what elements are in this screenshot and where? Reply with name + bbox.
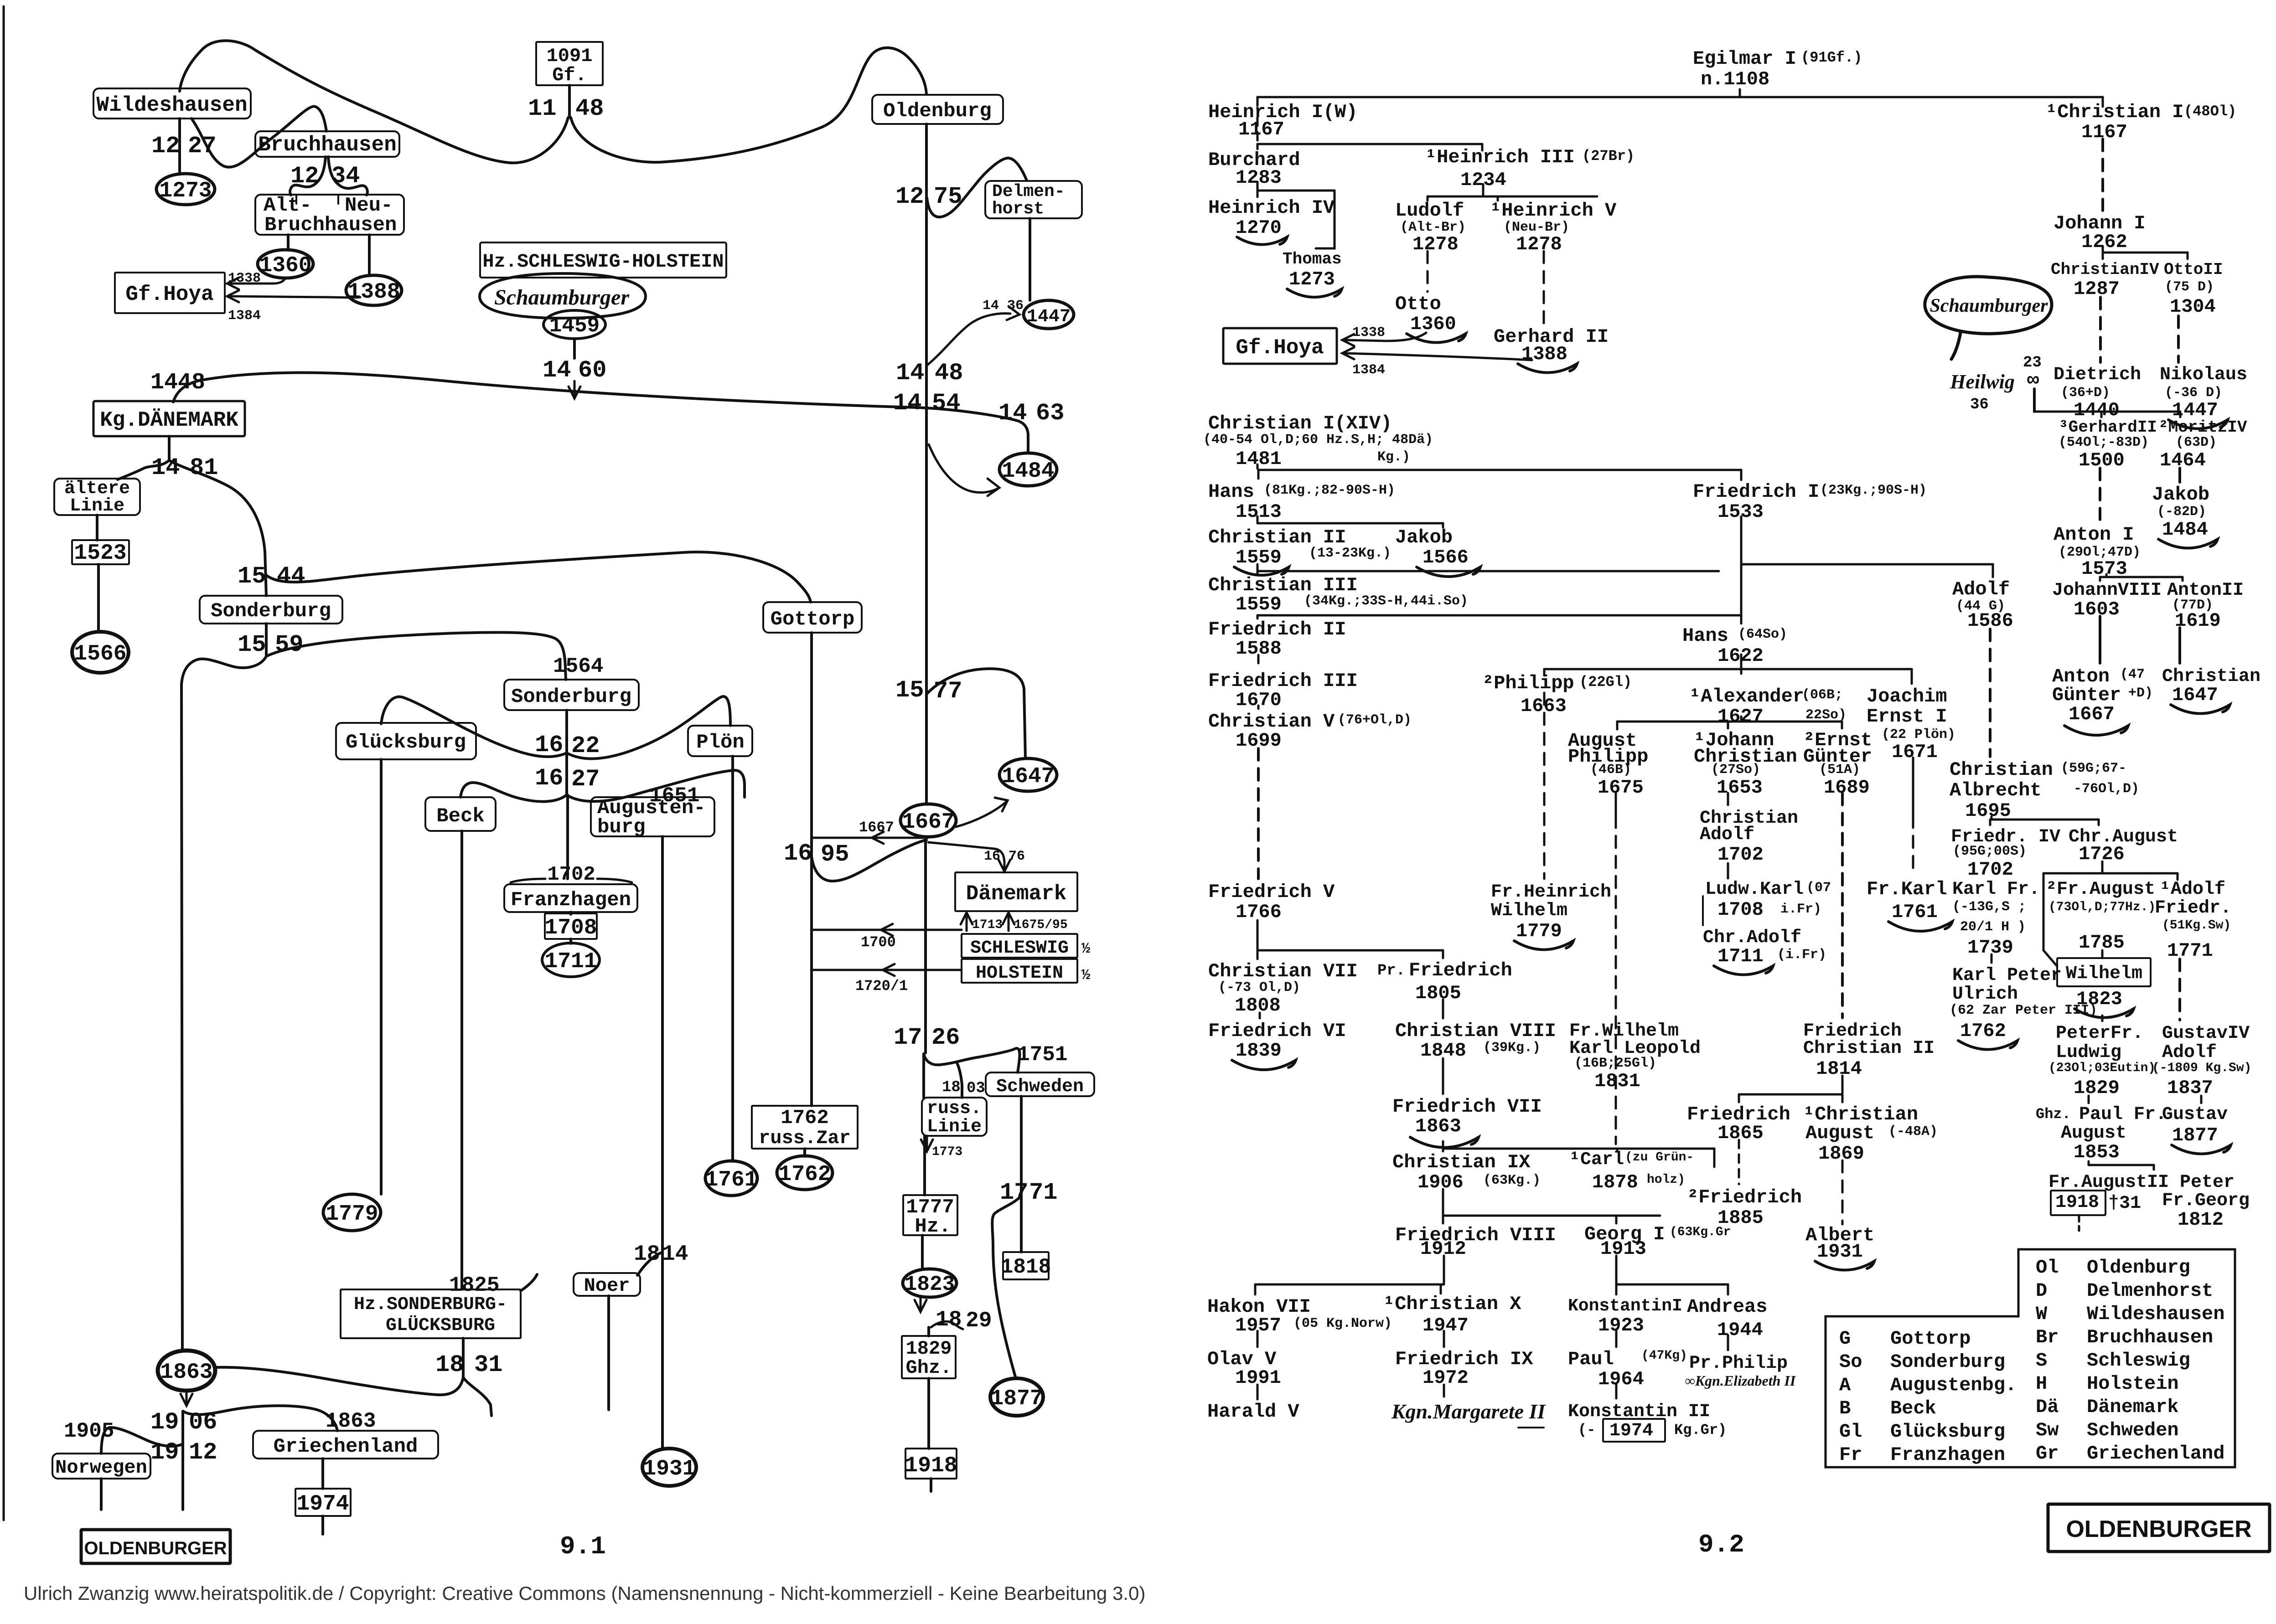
wire ErnstG dash — [1841, 793, 1844, 1018]
wire tick Moritz IV — [2179, 412, 2182, 417]
svg-text:Heinrich IV: Heinrich IV — [1208, 197, 1335, 219]
wire Gottorp down — [810, 633, 813, 1106]
box OLDENBURGER right — [2048, 1504, 2270, 1552]
swoosh 1484R — [2158, 539, 2218, 548]
arrow 1647 — [995, 798, 1008, 811]
arrow 1713 — [961, 913, 972, 924]
svg-text:Oldenburg: Oldenburg — [883, 100, 992, 123]
wire 1863 arrow — [186, 1391, 188, 1403]
wire Oldenburg main line lower — [924, 837, 927, 1053]
wire FVIII rail — [1255, 1284, 1444, 1286]
svg-text:1459: 1459 — [549, 314, 600, 338]
svg-text:1338: 1338 — [228, 271, 261, 286]
wire tick FriedrIV — [1989, 820, 1991, 825]
svg-text:1837: 1837 — [2167, 1077, 2213, 1099]
svg-text:1923: 1923 — [1598, 1315, 1644, 1336]
svg-text:Gf.: Gf. — [552, 64, 587, 86]
wire 1829 curl — [931, 1321, 963, 1329]
wire Neu to 1388 — [368, 235, 371, 275]
svg-text:Hans: Hans — [1208, 481, 1254, 503]
svg-text:Fr.Karl: Fr.Karl — [1867, 878, 1947, 900]
swoosh 1360R — [1407, 334, 1466, 343]
svg-text:1675: 1675 — [1598, 777, 1644, 799]
wire tick AdolfFr — [2177, 873, 2179, 880]
wire gen JohannI rail — [2103, 252, 2188, 254]
box Hz.SONDERBURG-GLUECKSBURG — [341, 1289, 521, 1338]
oval 1823 — [903, 1269, 957, 1297]
svg-text:†31: †31 — [2108, 1193, 2141, 1214]
svg-text:1878: 1878 — [1592, 1171, 1638, 1193]
wire 1559 left to main drop — [181, 656, 266, 1351]
svg-text:1619: 1619 — [2175, 610, 2221, 632]
svg-text:Glücksburg: Glücksburg — [1890, 1421, 2005, 1443]
svg-text:1863: 1863 — [1415, 1115, 1461, 1137]
svg-text:i.Fr): i.Fr) — [1780, 902, 1821, 917]
wire Paul stub — [1615, 1385, 1618, 1398]
wire 1695 branch — [812, 840, 926, 881]
page edge line left — [3, 6, 5, 1520]
svg-text:Schweden: Schweden — [996, 1077, 1084, 1097]
svg-text:Beck: Beck — [1890, 1397, 1936, 1419]
svg-text:Schaumburger: Schaumburger — [1929, 295, 2048, 316]
box Delmenhorst — [985, 181, 1082, 218]
box aeltere Linie — [54, 479, 140, 515]
svg-text:95: 95 — [821, 841, 849, 868]
svg-text:¹Heinrich V: ¹Heinrich V — [1490, 200, 1617, 222]
svg-text:Friedrich VIII: Friedrich VIII — [1395, 1224, 1556, 1246]
swoosh 1711b — [1714, 966, 1773, 975]
wire gen2 rail — [1257, 143, 1482, 145]
bubble Schaumburger left — [480, 273, 646, 318]
wire 1837 stub — [2200, 1096, 2203, 1103]
wire Augustenburg to 1931 — [661, 836, 664, 1449]
wire tick Andreas — [1727, 1284, 1729, 1294]
svg-text:14: 14 — [151, 454, 180, 481]
svg-text:(06B;: (06B; — [1802, 687, 1843, 703]
svg-text:15: 15 — [238, 563, 266, 590]
wire Olav stub — [1257, 1385, 1259, 1399]
svg-text:1918: 1918 — [905, 1454, 957, 1478]
wire JohannC stub — [1727, 793, 1729, 805]
wire 1647 arrow — [956, 802, 1006, 827]
svg-text:1667: 1667 — [902, 810, 954, 835]
svg-text:1360: 1360 — [1410, 313, 1456, 335]
svg-text:1762: 1762 — [781, 1107, 829, 1129]
svg-text:1384: 1384 — [228, 308, 261, 324]
svg-text:(59G;67-: (59G;67- — [2061, 761, 2126, 776]
svg-text:1559: 1559 — [1236, 593, 1282, 615]
wire Sonderburg mid — [265, 624, 268, 655]
svg-text:16: 16 — [984, 849, 1000, 864]
wire Schweden down — [1020, 1096, 1023, 1252]
svg-text:²Philipp: ²Philipp — [1482, 672, 1574, 694]
wire Noer link — [637, 1253, 662, 1275]
svg-text:Beck: Beck — [436, 805, 485, 828]
wire tick alt — [295, 195, 297, 204]
wire Wilhelm down — [2101, 1016, 2104, 1021]
wire Heinrich V dash — [1543, 251, 1545, 324]
svg-text:(64So): (64So) — [1738, 627, 1787, 642]
wire tick Gerhard II R — [2100, 412, 2103, 417]
svg-text:½: ½ — [1081, 967, 1090, 984]
box Gottorp — [763, 602, 862, 633]
swoosh 1270 — [1237, 237, 1287, 245]
svg-text:Ludwig: Ludwig — [2056, 1042, 2121, 1063]
wire tick FriedrichVIII — [1442, 1216, 1444, 1223]
wire tick Otto II — [2187, 253, 2189, 259]
svg-text:Glücksburg: Glücksburg — [346, 731, 466, 754]
svg-text:1278: 1278 — [1516, 233, 1562, 255]
svg-text:Hz.SONDERBURG-: Hz.SONDERBURG- — [354, 1294, 507, 1315]
svg-text:Hz.SCHLESWIG-HOLSTEIN: Hz.SCHLESWIG-HOLSTEIN — [482, 251, 724, 273]
wire tick neu — [337, 195, 339, 204]
wire tick Friedrich1885b — [1713, 1149, 1716, 1167]
svg-text:S: S — [2036, 1350, 2047, 1371]
wire 1713 arrow — [966, 915, 968, 931]
wire Hans64 stub — [1740, 655, 1743, 668]
wire GeorgI stub — [1615, 1256, 1618, 1283]
svg-text:27: 27 — [571, 766, 600, 793]
swoosh 1877b — [2172, 1145, 2231, 1154]
svg-text:1702: 1702 — [547, 863, 595, 886]
svg-text:Wildeshausen: Wildeshausen — [2087, 1303, 2224, 1325]
svg-text:(27So): (27So) — [1711, 762, 1760, 778]
svg-text:(73Ol,D;77Hz.): (73Ol,D;77Hz.) — [2048, 900, 2156, 914]
wire tick GeorgI — [1615, 1216, 1618, 1223]
svg-text:Friedrich: Friedrich — [1409, 959, 1512, 981]
wire 1708 to 1711 — [569, 939, 572, 943]
wire gen1 rail — [1257, 96, 2103, 98]
oval 1566 — [72, 632, 129, 673]
arrow 1460 — [569, 387, 580, 398]
wire gen3 rail — [1257, 190, 1335, 192]
svg-text:Ludw.Karl: Ludw.Karl — [1705, 879, 1804, 900]
wire 1338 marriage — [229, 278, 285, 284]
box SCHLESWIG — [962, 934, 1077, 958]
svg-text:11: 11 — [528, 95, 556, 122]
wire Noer down — [607, 1296, 610, 1410]
wire ChrAlb stub — [1991, 817, 1993, 820]
svg-text:Norwegen: Norwegen — [55, 1457, 147, 1479]
svg-text:Pr.Philip: Pr.Philip — [1689, 1353, 1788, 1374]
wire 1831 tail — [463, 1377, 491, 1416]
svg-text:1739: 1739 — [1967, 937, 2013, 959]
oval 1484 — [999, 453, 1057, 486]
svg-text:1931: 1931 — [643, 1457, 695, 1481]
svg-text:(27Br): (27Br) — [1582, 148, 1635, 165]
svg-text:+D): +D) — [2128, 686, 2153, 701]
svg-text:Christian II: Christian II — [1803, 1038, 1935, 1059]
wire 1167 dash — [1257, 118, 1259, 143]
wire 1481 stub — [168, 436, 171, 459]
wire AntonI rail — [2100, 576, 2183, 578]
wire ChristianV dash — [1257, 748, 1260, 879]
svg-text:1865: 1865 — [1717, 1122, 1764, 1144]
swoosh 1388R — [1518, 364, 1577, 373]
svg-text:1647: 1647 — [2172, 684, 2218, 706]
svg-text:Jakob: Jakob — [1395, 526, 1453, 548]
wire FriedrichI col — [1740, 516, 1743, 563]
box 1918 left — [905, 1449, 957, 1479]
svg-text:Friedrich V: Friedrich V — [1208, 881, 1335, 903]
box 1091 Gf. — [536, 42, 603, 85]
svg-text:Paul: Paul — [1568, 1348, 1614, 1370]
svg-text:A: A — [1839, 1374, 1851, 1396]
svg-text:12: 12 — [151, 133, 180, 160]
wire FriedrichII dash — [1257, 655, 1260, 666]
arrow 1667 — [872, 832, 884, 844]
svg-text:ChristianIV: ChristianIV — [2051, 260, 2159, 279]
wire Bruchhausen left curl — [290, 157, 326, 195]
box 1918 right — [2051, 1191, 2105, 1215]
wire FriedrichVII stub — [1442, 1141, 1444, 1147]
oval 1863 left — [158, 1351, 215, 1391]
svg-text:31: 31 — [474, 1351, 502, 1378]
svg-text:Gustav: Gustav — [2162, 1104, 2228, 1125]
box 1974 left — [295, 1489, 351, 1516]
wire tick Ludolf — [1427, 196, 1429, 201]
wire Sonderburg2 to Franzhagen — [566, 795, 569, 879]
svg-text:Kg.DÄNEMARK: Kg.DÄNEMARK — [100, 408, 238, 432]
svg-text:1906: 1906 — [1417, 1171, 1464, 1193]
box 1829 Ghz. — [902, 1336, 956, 1378]
svg-text:½: ½ — [1081, 940, 1090, 957]
svg-text:71: 71 — [1029, 1179, 1057, 1206]
wire Alt to 1360 — [287, 235, 290, 250]
wire Hakon stub — [1257, 1331, 1259, 1347]
svg-text:(05 Kg.Norw): (05 Kg.Norw) — [1293, 1316, 1392, 1331]
svg-text:77: 77 — [934, 678, 962, 705]
box Noer — [574, 1273, 640, 1296]
svg-text:1762: 1762 — [778, 1162, 831, 1187]
arrow 1720/1 — [883, 964, 895, 976]
wire 1912 branch — [101, 1428, 183, 1454]
wire Heilwig stem — [2033, 389, 2036, 412]
box Wilhelm — [2057, 958, 2151, 986]
svg-text:1384: 1384 — [1352, 362, 1385, 378]
svg-text:15: 15 — [895, 677, 924, 704]
box Sonderburg 1 — [200, 596, 342, 624]
wire ChristianII rail — [1257, 570, 1719, 572]
svg-text:Griechenland: Griechenland — [2087, 1443, 2224, 1464]
svg-text:Holstein: Holstein — [2087, 1373, 2179, 1395]
box Hz.SCHLESWIG-HOLSTEIN — [480, 242, 726, 278]
svg-text:Joachim: Joachim — [1867, 686, 1947, 707]
box Wildeshausen — [93, 88, 251, 119]
wire tick Friedrich1865 — [1738, 1094, 1740, 1102]
wire 1676 branch — [928, 842, 1004, 869]
svg-text:So: So — [1839, 1351, 1862, 1373]
wire ChristianAug dash — [1841, 1160, 1844, 1224]
svg-text:Linie: Linie — [70, 496, 124, 516]
svg-text:1771: 1771 — [2167, 940, 2213, 962]
svg-text:Dä: Dä — [2036, 1396, 2059, 1418]
svg-text:Friedrich VI: Friedrich VI — [1208, 1020, 1346, 1042]
oval 1388 — [346, 275, 402, 305]
wire Franzhagen to 1708 — [569, 912, 572, 914]
svg-text:Christian V: Christian V — [1208, 711, 1335, 732]
svg-text:(-13G,S ;: (-13G,S ; — [1952, 899, 2026, 915]
wire FrAugust rail — [2043, 872, 2178, 875]
wire Wildeshausen to 1273 — [178, 119, 181, 174]
svg-text:Albrecht: Albrecht — [1950, 779, 2042, 801]
wire tick Heinrich V — [1497, 196, 1499, 201]
svg-text:D: D — [2036, 1280, 2047, 1302]
svg-text:16: 16 — [535, 765, 563, 792]
wire 1234 stub — [1482, 184, 1485, 195]
svg-text:-76Ol,D): -76Ol,D) — [2074, 781, 2139, 797]
box Daenemark — [955, 872, 1077, 911]
svg-text:Delmen-: Delmen- — [992, 182, 1065, 201]
svg-text:1711: 1711 — [1717, 945, 1764, 967]
wire Wildeshausen to Bruchhausen — [191, 106, 326, 167]
wire Hans81 rail — [1257, 522, 1443, 525]
svg-text:1360: 1360 — [259, 253, 311, 278]
wire 1262 stub — [2102, 246, 2104, 251]
wire 1814 stub — [1841, 1076, 1844, 1093]
wire JoachimE down — [1912, 758, 1914, 816]
wire russZar to 1762 — [803, 1149, 806, 1156]
svg-text:Adolf: Adolf — [2162, 1042, 2217, 1063]
svg-text:1338: 1338 — [1352, 325, 1385, 340]
svg-text:1918: 1918 — [2055, 1192, 2099, 1213]
svg-text:Jakob: Jakob — [2152, 484, 2209, 505]
svg-text:Peter: Peter — [2180, 1172, 2235, 1193]
arrow 1338 — [227, 278, 239, 289]
svg-text:(Alt-Br): (Alt-Br) — [1400, 220, 1466, 235]
svg-text:1711: 1711 — [544, 949, 597, 974]
svg-text:1091: 1091 — [547, 45, 593, 67]
wire main to 1777 — [923, 1136, 926, 1195]
svg-text:B: B — [1839, 1397, 1851, 1419]
svg-text:1388: 1388 — [347, 280, 400, 304]
svg-text:H: H — [2036, 1373, 2047, 1395]
wire tick Hakon — [1254, 1284, 1257, 1294]
box 1708 — [545, 913, 597, 939]
wire 1459 down — [573, 339, 576, 358]
box Alt-/Neu-Bruchhausen — [255, 195, 404, 235]
svg-text:Kg.Gr): Kg.Gr) — [1674, 1422, 1727, 1438]
svg-text:Schaumburger: Schaumburger — [494, 285, 630, 309]
svg-text:(-1809 Kg.Sw): (-1809 Kg.Sw) — [2152, 1061, 2251, 1075]
wire 1739 stub — [1991, 954, 1993, 963]
svg-text:(75 D): (75 D) — [2165, 279, 2214, 295]
wire 1338R marriage — [1345, 333, 1426, 341]
svg-text:KonstantinI: KonstantinI — [1568, 1296, 1682, 1316]
svg-text:Günter: Günter — [2052, 684, 2121, 706]
wire tick FriedrichII b — [1257, 615, 1259, 619]
svg-text:(23Ol;03Eutin): (23Ol;03Eutin) — [2048, 1061, 2156, 1075]
wire 1785 stub — [2101, 950, 2104, 958]
svg-text:russ.: russ. — [927, 1098, 982, 1119]
svg-text:August: August — [2061, 1123, 2126, 1144]
oval 1667 — [900, 804, 956, 837]
arrow 1447 — [1007, 306, 1019, 320]
wire 1825 hook — [521, 1274, 537, 1291]
arrow 1675/95 — [1003, 913, 1014, 924]
svg-text:russ.Zar: russ.Zar — [759, 1127, 851, 1149]
wire 1091 stub — [568, 85, 571, 118]
svg-text:(40-54 Ol,D;60 Hz.S,H; 48Dä): (40-54 Ol,D;60 Hz.S,H; 48Dä) — [1203, 432, 1433, 448]
svg-text:(54Ol;-83D): (54Ol;-83D) — [2059, 435, 2149, 450]
svg-text:1484: 1484 — [1002, 459, 1054, 484]
swoosh 1566R — [1417, 567, 1480, 577]
wire tick Hans81 — [1257, 470, 1260, 479]
svg-text:1566: 1566 — [1422, 546, 1469, 568]
svg-text:44: 44 — [277, 563, 305, 590]
oval 1761 — [705, 1161, 757, 1196]
wire Oldenburg main line upper — [925, 124, 928, 804]
wire Alexander rail — [1617, 721, 1842, 723]
wire 1627 to Beck — [460, 783, 567, 802]
svg-text:14: 14 — [543, 357, 571, 384]
svg-text:1773: 1773 — [932, 1145, 962, 1159]
svg-text:1523: 1523 — [74, 541, 126, 566]
wire KonstantinI stub — [1615, 1331, 1618, 1347]
wire FrAugustII dash — [2078, 1215, 2080, 1231]
svg-text:²MoritzIV: ²MoritzIV — [2158, 418, 2247, 437]
svg-text:1972: 1972 — [1422, 1367, 1469, 1389]
svg-text:1825: 1825 — [449, 1273, 499, 1297]
svg-text:W: W — [2036, 1303, 2048, 1325]
wire 1464 stub — [2178, 468, 2181, 482]
swoosh 1273R — [1287, 289, 1342, 297]
svg-text:03: 03 — [967, 1080, 985, 1097]
svg-text:OLDENBURGER: OLDENBURGER — [2066, 1516, 2251, 1542]
wire 1829 line — [927, 1327, 930, 1336]
svg-text:Wilhelm: Wilhelm — [1491, 901, 1567, 921]
svg-text:(13-23Kg.): (13-23Kg.) — [1309, 546, 1391, 561]
wire ChristianIX rail — [1443, 1215, 1660, 1217]
svg-text:12: 12 — [189, 1439, 217, 1466]
svg-text:Thomas: Thomas — [1283, 250, 1342, 268]
svg-text:60: 60 — [578, 357, 606, 384]
svg-text:17: 17 — [894, 1024, 922, 1051]
svg-text:Karl Peter: Karl Peter — [1952, 965, 2062, 986]
wire FriedrichI rail — [1741, 563, 1993, 566]
svg-text:Christian VIII: Christian VIII — [1395, 1020, 1556, 1042]
svg-text:48: 48 — [575, 95, 604, 122]
svg-text:1779: 1779 — [1516, 920, 1562, 942]
wire main left tail — [181, 1412, 184, 1510]
svg-text:Gr: Gr — [2036, 1443, 2059, 1464]
svg-text:(81Kg.;82-90S-H): (81Kg.;82-90S-H) — [1264, 483, 1395, 498]
wire 1823 arrow — [920, 1297, 922, 1309]
wire 1559 stub — [1257, 564, 1259, 570]
svg-text:Gf.Hoya: Gf.Hoya — [1236, 336, 1324, 360]
svg-text:(34Kg.;33S-H,44i.So): (34Kg.;33S-H,44i.So) — [1304, 593, 1468, 609]
wire Delmenhorst to 1447 — [1029, 218, 1031, 300]
svg-text:PeterFr.: PeterFr. — [2056, 1023, 2143, 1044]
arrow 1676 — [998, 860, 1010, 871]
svg-text:1708: 1708 — [1717, 899, 1764, 921]
oval 1273 — [156, 174, 215, 205]
svg-text:1877: 1877 — [990, 1387, 1043, 1411]
svg-text:Bruchhausen: Bruchhausen — [264, 214, 397, 237]
svg-text:Karl Fr.: Karl Fr. — [1952, 879, 2040, 900]
svg-text:1779: 1779 — [326, 1202, 378, 1227]
wire FriedrichI corner — [1740, 470, 1743, 480]
wire ChristianVII stub — [1259, 1013, 1261, 1018]
svg-text:(76+Ol,D): (76+Ol,D) — [1338, 712, 1412, 728]
svg-text:1913: 1913 — [1600, 1238, 1646, 1260]
svg-text:(Neu-Br): (Neu-Br) — [1504, 220, 1569, 235]
wire Ludolf dash — [1427, 251, 1429, 292]
svg-text:1262: 1262 — [2081, 231, 2127, 253]
svg-text:Noer: Noer — [584, 1275, 630, 1297]
svg-text:1839: 1839 — [1236, 1040, 1282, 1062]
svg-text:Linie: Linie — [927, 1117, 982, 1137]
